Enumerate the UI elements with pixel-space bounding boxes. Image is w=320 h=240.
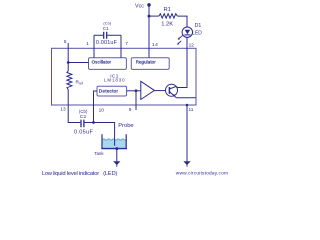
LED emission arrows xyxy=(177,35,183,45)
svg-text:(Cb): (Cb) xyxy=(79,109,88,114)
LED D1 triangle and bar xyxy=(185,30,191,35)
wire amp to transistor base xyxy=(154,90,169,92)
svg-text:10: 10 xyxy=(99,107,105,113)
regulator block xyxy=(131,58,169,70)
svg-text:LED: LED xyxy=(192,31,202,37)
oscillator block xyxy=(89,58,127,70)
ground under pin 11 xyxy=(183,161,190,166)
svg-text:7: 7 xyxy=(125,41,128,47)
wire detector output to amplifier xyxy=(127,90,141,92)
wire C2 to node xyxy=(85,122,94,124)
wire pin 7 from C1 rail to oscillator xyxy=(120,35,122,58)
capacitor C1 plates xyxy=(104,32,107,39)
wire pin 11 down to ground xyxy=(186,105,188,162)
junction node C2/probe/pin10 xyxy=(92,121,95,124)
wire node to probe xyxy=(94,123,115,146)
junction node tank bottom xyxy=(115,147,118,150)
svg-text:0.001uF: 0.001uF xyxy=(96,40,118,46)
svg-text:11: 11 xyxy=(189,107,194,113)
svg-text:LM1830: LM1830 xyxy=(104,78,126,83)
svg-text:(Co): (Co) xyxy=(103,21,111,26)
wire R1 branch horizontal xyxy=(149,15,159,17)
junction node R1 tap xyxy=(148,15,151,18)
svg-text:Probe: Probe xyxy=(118,123,133,129)
junction node at Vcc terminal xyxy=(147,3,151,7)
transistor Q1 collector xyxy=(169,86,177,89)
svg-text:Regulator: Regulator xyxy=(136,60,157,65)
svg-text:Rref: Rref xyxy=(76,80,83,86)
svg-text:R1: R1 xyxy=(164,7,171,13)
wire pin 10 up to detector input xyxy=(94,91,98,123)
wire R1 to LED corner xyxy=(177,16,187,27)
svg-text:Low liquid level indicator (: Low liquid level indicator (LED) xyxy=(42,171,118,177)
wire pin 9 stub xyxy=(135,91,137,110)
wire LED cathode down through pin 12 to collector xyxy=(177,37,187,87)
wire emitter to pin 11 edge xyxy=(176,97,196,99)
junction node detector/amp/pin9 xyxy=(135,89,138,92)
svg-text:9: 9 xyxy=(129,107,132,113)
ground under tank xyxy=(113,161,120,166)
svg-text:www.circuitstoday.com: www.circuitstoday.com xyxy=(176,170,228,176)
resistor R1 zigzag xyxy=(159,14,178,18)
wire pin 13 below box to C2 xyxy=(68,105,80,123)
detector block xyxy=(97,86,127,96)
LED D1 circle xyxy=(182,27,192,37)
resistor Rref zigzag vertical xyxy=(67,63,72,106)
tank bottom xyxy=(101,148,127,150)
svg-text:Tank: Tank xyxy=(94,151,104,156)
water fill in tank xyxy=(103,139,126,148)
wire Vcc vertical to pin 14 into regulator xyxy=(148,5,150,58)
op-amp buffer triangle xyxy=(141,81,155,99)
wire probe ground from tank xyxy=(116,149,118,162)
svg-text:1.2K: 1.2K xyxy=(161,22,173,28)
wire node to oscillator input xyxy=(68,62,88,64)
svg-text:Vcc: Vcc xyxy=(135,4,144,10)
capacitor C2 plates xyxy=(81,120,84,128)
junction node pin 11 at box edge xyxy=(186,104,189,107)
junction node pin5/Rref xyxy=(67,61,70,64)
svg-text:1: 1 xyxy=(86,41,89,47)
transistor emitter arrowhead xyxy=(173,94,176,96)
transistor Q1 circle xyxy=(166,84,178,96)
wire pin 1 from C1 rail to oscillator xyxy=(93,35,95,58)
svg-text:5: 5 xyxy=(64,39,67,45)
svg-text:0.05uF: 0.05uF xyxy=(74,130,93,136)
svg-text:12: 12 xyxy=(189,42,195,48)
IC box U1 LM1830 outline xyxy=(52,48,197,105)
svg-text:C2: C2 xyxy=(80,114,87,120)
svg-text:13: 13 xyxy=(60,107,66,113)
svg-text:D1: D1 xyxy=(195,23,202,29)
svg-text:C1: C1 xyxy=(103,26,109,31)
svg-text:14: 14 xyxy=(152,42,158,48)
svg-text:Detector: Detector xyxy=(99,88,119,94)
tank walls xyxy=(102,134,126,148)
water surface wave xyxy=(103,139,127,140)
svg-text:Oscillator: Oscillator xyxy=(92,60,112,65)
wire pin 5 stub and down to node xyxy=(67,43,69,63)
wire C1 top rail xyxy=(94,34,121,36)
transistor Q1 base bar xyxy=(168,87,170,94)
transistor Q1 emitter xyxy=(169,92,176,98)
